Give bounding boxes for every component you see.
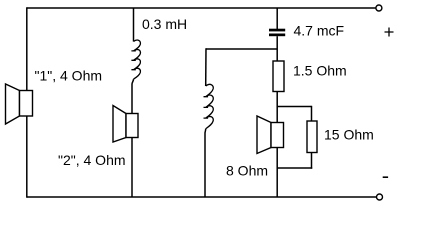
svg-text:8 Ohm: 8 Ohm bbox=[226, 163, 268, 179]
speaker SP2 "2", 4 Ohm bbox=[113, 106, 138, 143]
label - bbox=[383, 176, 388, 178]
wire bottom rail bbox=[27, 196, 377, 198]
wire middle branch horizontal bbox=[206, 48, 277, 50]
wire middle branch upper vertical bbox=[205, 48, 207, 86]
wire R1 to SP3 bbox=[276, 92, 278, 123]
wire middle branch lower vertical bbox=[204, 129, 207, 197]
inductor L2 bbox=[204, 84, 214, 128]
wire R2 upper vertical bbox=[311, 106, 313, 121]
wire SP2 to bottom rail bbox=[131, 138, 133, 198]
svg-text:1.5 Ohm: 1.5 Ohm bbox=[293, 63, 347, 79]
wire branch L1 top bbox=[133, 8, 135, 42]
wire R2 loop bottom bbox=[277, 167, 312, 169]
resistor R1 1.5 Ohm bbox=[273, 61, 284, 92]
label + bbox=[385, 28, 394, 37]
wire cap to R1 bbox=[276, 36, 278, 61]
inductor L1 0.3 mH bbox=[131, 40, 140, 79]
wire cap branch top bbox=[276, 8, 278, 29]
svg-text:"1", 4 Ohm: "1", 4 Ohm bbox=[35, 68, 103, 84]
resistor R2 15 Ohm bbox=[307, 121, 317, 153]
speaker SP1 "1", 4 Ohm bbox=[6, 84, 33, 124]
svg-text:15 Ohm: 15 Ohm bbox=[324, 127, 374, 143]
wire SP3 to bottom rail bbox=[276, 148, 278, 198]
wire R2 loop top bbox=[277, 106, 311, 108]
svg-text:"2", 4 Ohm: "2", 4 Ohm bbox=[58, 152, 126, 168]
svg-text:0.3 mH: 0.3 mH bbox=[142, 16, 187, 32]
wire left rail upper bbox=[26, 7, 28, 90]
speaker SP3 8 Ohm bbox=[257, 116, 284, 154]
terminal minus bbox=[377, 194, 383, 200]
wire top rail bbox=[27, 7, 376, 9]
capacitor C1 4.7 mcF bbox=[269, 29, 285, 37]
terminal plus bbox=[376, 5, 382, 11]
wire L1 to SP2 bbox=[132, 79, 134, 113]
wire left rail lower bbox=[26, 116, 28, 198]
svg-text:4.7 mcF: 4.7 mcF bbox=[294, 23, 345, 39]
wire R2 lower vertical bbox=[311, 153, 313, 169]
